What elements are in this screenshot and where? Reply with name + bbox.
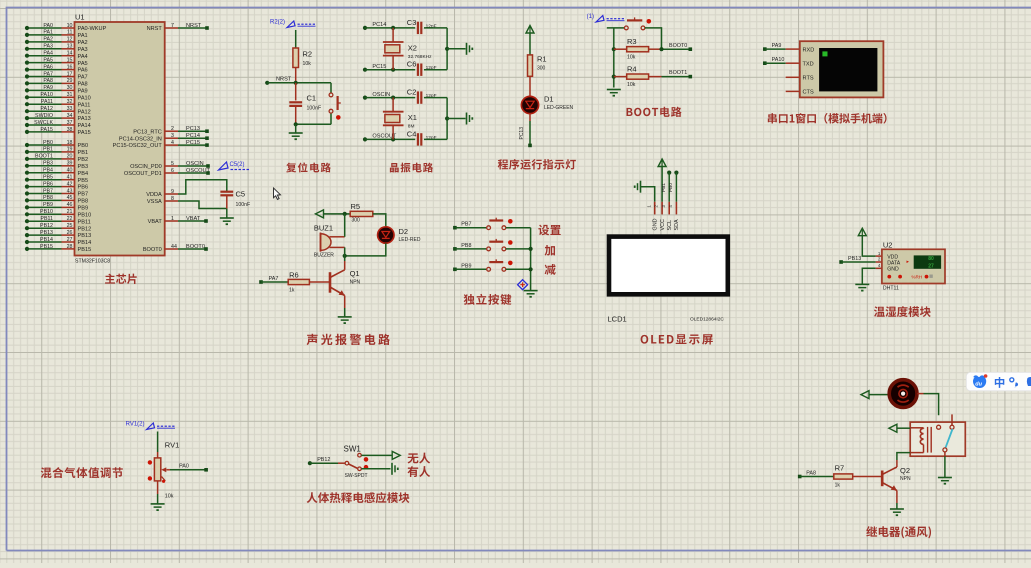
net label OSCIN <box>363 92 390 100</box>
svg-text:SDA: SDA <box>674 219 680 230</box>
power arrow OLED VCC <box>658 159 666 167</box>
svg-text:PA4: PA4 <box>43 51 53 57</box>
svg-text:BOOT1: BOOT1 <box>669 70 687 76</box>
label 串口1窗口（模拟手机端） <box>768 113 777 123</box>
wire PB7 to key <box>455 227 487 229</box>
svg-text:SCL: SCL <box>667 220 673 231</box>
svg-text:29: 29 <box>67 78 73 84</box>
U1 right pin 44 BOOT0 <box>143 244 208 253</box>
blue script label R2(2) <box>270 20 316 28</box>
resistor R6 1k <box>261 271 330 294</box>
svg-text:GND: GND <box>887 267 899 273</box>
wire net PB6 to U1 pin 42 <box>25 181 88 190</box>
wire power to R5 node <box>324 212 351 216</box>
svg-text:43: 43 <box>67 188 73 194</box>
svg-text:33: 33 <box>67 106 73 112</box>
power arrow buzzer <box>316 210 324 218</box>
label 程序运行指示灯 <box>498 159 508 169</box>
push button key PB9 <box>487 259 513 271</box>
svg-text:PB7: PB7 <box>78 192 89 198</box>
wire PB13 to DATA <box>841 261 876 263</box>
ground keys <box>524 291 538 297</box>
virtual terminal 串口1 window <box>786 41 884 97</box>
svg-text:PB11: PB11 <box>78 219 91 225</box>
capacitor C5 100nF <box>220 190 250 209</box>
relay RL1 body <box>910 422 965 456</box>
wire PB8 to key <box>455 248 487 250</box>
net label PA8 <box>798 470 816 478</box>
wire D1 to PC13 net <box>519 114 532 148</box>
wire net PB11 to U1 pin 22 <box>25 216 91 225</box>
led D2 LED-RED <box>378 227 421 243</box>
svg-text:PA3: PA3 <box>43 44 53 50</box>
net label PA9 <box>763 43 781 51</box>
svg-text:12: 12 <box>67 37 73 43</box>
svg-text:SWDIO: SWDIO <box>35 113 53 119</box>
wire net PA0 wiper <box>170 464 208 472</box>
power arrow relay coil <box>889 424 910 432</box>
svg-text:BOOT1: BOOT1 <box>35 154 53 160</box>
wire net PA5 to U1 pin 15 <box>25 57 88 66</box>
net label PB7 <box>453 222 471 230</box>
svg-text:OSCIN_PD0: OSCIN_PD0 <box>130 164 162 170</box>
push button key PB8 <box>487 239 513 251</box>
svg-text:PA11: PA11 <box>78 102 91 108</box>
net label PA7 <box>259 276 278 284</box>
wire D2 to collector node <box>343 243 386 258</box>
wire net PB15 to U1 pin 28 <box>25 244 91 253</box>
svg-text:1k: 1k <box>289 288 295 294</box>
wire C1 to button bottom <box>294 122 331 126</box>
svg-text:LED-RED: LED-RED <box>399 237 421 243</box>
input method toolbar <box>966 372 1031 390</box>
svg-text:32.768KHz: 32.768KHz <box>408 54 432 60</box>
svg-text:PA4: PA4 <box>78 54 88 60</box>
svg-text:BOOT0: BOOT0 <box>186 244 205 250</box>
svg-text:VCC: VCC <box>660 219 666 230</box>
svg-text:R2(2): R2(2) <box>270 20 285 26</box>
svg-text:PA7: PA7 <box>78 75 88 81</box>
label 主芯片 <box>105 274 115 284</box>
svg-text:PA8: PA8 <box>43 78 53 84</box>
wire button to BOOT0 net <box>645 28 662 49</box>
svg-text:PB0: PB0 <box>78 143 89 149</box>
svg-text:PC15-OSC32_OUT: PC15-OSC32_OUT <box>113 143 163 149</box>
svg-text:34: 34 <box>67 113 73 119</box>
label 独立按键 <box>464 294 475 305</box>
svg-text:PA7: PA7 <box>269 276 279 282</box>
svg-text:19: 19 <box>67 147 73 153</box>
svg-text:41: 41 <box>67 175 73 181</box>
resistor R7 1k <box>800 464 881 489</box>
label OLED显示屏 <box>641 335 649 344</box>
svg-text:R1: R1 <box>537 55 547 64</box>
blue script label C5(2) <box>219 162 250 170</box>
svg-text:NRST: NRST <box>186 23 202 29</box>
svg-text:PB14: PB14 <box>40 237 53 243</box>
wire VDD DHT11 <box>862 236 875 256</box>
ground BOOT circuit <box>607 90 621 96</box>
svg-text:PA2: PA2 <box>78 40 88 46</box>
svg-text:PA13: PA13 <box>78 116 91 122</box>
svg-text:PB7: PB7 <box>43 188 53 194</box>
net label PB12 <box>308 457 331 465</box>
wire OSCOUT row <box>365 137 415 141</box>
svg-text:R6: R6 <box>289 271 299 280</box>
svg-text:PB5: PB5 <box>78 178 89 184</box>
mouse cursor <box>274 188 281 199</box>
label 晶振电路 <box>390 163 399 172</box>
wire net PA15 to U1 pin 38 <box>25 127 91 136</box>
svg-text:C3: C3 <box>407 18 417 27</box>
svg-text:10k: 10k <box>303 61 312 67</box>
label 声光报警电路 <box>307 334 318 345</box>
wire left bus BOOT <box>612 28 616 88</box>
net label PA10 <box>763 57 784 65</box>
svg-text:VBAT: VBAT <box>186 216 201 222</box>
power arrow motor <box>861 391 869 399</box>
svg-text:SW1: SW1 <box>344 445 362 454</box>
svg-text:C6: C6 <box>407 60 417 69</box>
svg-text:PB9: PB9 <box>43 202 53 208</box>
wire PA10 to TXD <box>765 62 786 64</box>
svg-text:(1): (1) <box>587 14 594 20</box>
label 减 <box>545 264 556 275</box>
svg-text:X2: X2 <box>408 43 417 52</box>
svg-text:VDDA: VDDA <box>146 192 162 198</box>
ground below C5 <box>220 209 234 225</box>
potentiometer RV1 10k <box>148 441 180 500</box>
svg-text:PC14-OSC32_IN: PC14-OSC32_IN <box>119 136 162 142</box>
svg-text:OSCIN: OSCIN <box>186 161 204 167</box>
svg-text:BUZZER: BUZZER <box>314 253 334 259</box>
svg-text:17: 17 <box>67 71 73 77</box>
svg-text:PB13: PB13 <box>78 233 92 239</box>
svg-text:PA8: PA8 <box>78 82 88 88</box>
wire net PA1 to U1 pin 11 <box>25 30 88 39</box>
wire keys common bus <box>529 228 533 291</box>
svg-text:PA2: PA2 <box>43 37 53 43</box>
transistor Q1 NPN <box>330 261 361 308</box>
svg-text:10k: 10k <box>627 55 636 61</box>
wire right bus X1 <box>445 98 466 140</box>
svg-text:PA5: PA5 <box>43 57 53 63</box>
resistor R3 10k <box>614 37 662 61</box>
svg-text:PB10: PB10 <box>78 212 92 218</box>
wire key PB9 to bus <box>506 268 531 270</box>
wire net BOOT1 <box>662 70 693 78</box>
svg-text:PC13: PC13 <box>519 127 525 140</box>
svg-text:OLED12864I2C: OLED12864I2C <box>690 317 724 323</box>
svg-text:10: 10 <box>67 23 73 29</box>
svg-text:PB9: PB9 <box>461 263 471 269</box>
wire net SWCLK to U1 pin 37 <box>25 120 91 129</box>
wire R5 to D2 <box>373 214 386 227</box>
svg-text:11: 11 <box>67 30 73 36</box>
ground OLED GND <box>635 181 655 202</box>
svg-text:28: 28 <box>67 244 73 250</box>
svg-text:DATA: DATA <box>887 260 901 266</box>
svg-text:PB14: PB14 <box>78 240 92 246</box>
wire net SWDIO to U1 pin 34 <box>25 113 91 122</box>
svg-text:R2: R2 <box>303 50 313 59</box>
svg-text:SWCLK: SWCLK <box>34 120 53 126</box>
capacitor C6 12pF <box>407 60 447 76</box>
svg-text:GND: GND <box>653 218 659 230</box>
wire VSSA to C5 ground <box>178 201 227 209</box>
relay coil <box>910 427 931 453</box>
wire PC14 row <box>365 26 415 30</box>
svg-text:27: 27 <box>67 237 73 243</box>
resistor R4 10k <box>614 64 662 88</box>
svg-text:PC15: PC15 <box>186 140 200 146</box>
wire net PB12 to U1 pin 25 <box>25 223 91 232</box>
svg-text:PB10: PB10 <box>40 209 53 215</box>
net label NRST node <box>265 77 292 85</box>
wire GND DHT11 <box>862 268 875 284</box>
svg-text:DHT11: DHT11 <box>883 286 899 292</box>
svg-text:13: 13 <box>67 44 73 50</box>
svg-text:PB6: PB6 <box>78 185 89 191</box>
ground reset circuit <box>289 124 303 139</box>
label 加 <box>545 245 555 256</box>
power arrow DHT11 VDD <box>858 228 866 236</box>
U1 right pin 2 PC13_RTC <box>133 126 209 135</box>
ic U1 STM32F103C8 body <box>75 22 165 256</box>
svg-text:PB12: PB12 <box>317 457 330 463</box>
svg-text:PC13_RTC: PC13_RTC <box>133 129 162 135</box>
capacitor C2 12pF <box>407 88 447 104</box>
svg-text:NRST: NRST <box>276 77 292 83</box>
svg-text:PB4: PB4 <box>43 168 53 174</box>
buzzer BUZ1 <box>314 224 345 259</box>
wire net BOOT0 <box>659 43 692 52</box>
wire PB9 to key <box>455 268 487 270</box>
motor fan <box>889 380 917 408</box>
wire SW1 NC to ground <box>361 463 397 475</box>
svg-text:300: 300 <box>352 218 361 224</box>
wire PC15 row <box>365 68 415 72</box>
svg-text:NRST: NRST <box>147 26 163 32</box>
svg-text:42: 42 <box>67 181 73 187</box>
label 无人 <box>408 453 419 463</box>
svg-text:NPN: NPN <box>900 476 911 482</box>
svg-text:D2: D2 <box>399 227 409 236</box>
svg-text:Q2: Q2 <box>900 466 910 475</box>
wire PA9 to RXD <box>765 48 786 50</box>
wire power to R1 <box>529 33 531 55</box>
svg-text:20: 20 <box>67 154 73 160</box>
svg-text:PB0: PB0 <box>43 140 53 146</box>
svg-text:300: 300 <box>537 66 546 72</box>
svg-text:PB1: PB1 <box>43 147 53 153</box>
blue script label (1) <box>587 14 625 22</box>
transistor Q2 NPN <box>882 460 911 503</box>
svg-text:R7: R7 <box>835 464 845 473</box>
svg-text:PA10: PA10 <box>772 57 785 63</box>
wire net PA7 to U1 pin 17 <box>25 71 88 80</box>
wire VDDA to C5 <box>178 180 227 194</box>
svg-text:80: 80 <box>928 256 934 262</box>
svg-text:PA6: PA6 <box>78 68 88 74</box>
wire net PB4 to U1 pin 40 <box>25 168 88 177</box>
capacitor C1 100nF <box>289 83 321 125</box>
U1 right pin 1 VBAT <box>148 216 208 225</box>
relay contacts <box>937 414 954 456</box>
push button BOOT0 <box>624 17 651 29</box>
wire BOOT button left <box>607 27 625 29</box>
label 继电器(通风) <box>866 526 877 536</box>
svg-text:PA1: PA1 <box>43 30 53 36</box>
svg-text:PB12: PB12 <box>40 223 53 229</box>
svg-text:PB2: PB2 <box>78 157 89 163</box>
lcd LCD1 OLED display body <box>609 237 728 295</box>
U1 right pin 3 PC14-OSC32_IN <box>119 133 209 142</box>
svg-text:PA5: PA5 <box>78 61 88 67</box>
svg-text:PA11: PA11 <box>41 99 53 105</box>
lcd LCD1 pins <box>646 202 680 231</box>
wire power to R2 <box>295 30 297 48</box>
svg-text:Q1: Q1 <box>350 269 360 278</box>
wire net PB0 to SDA <box>668 171 678 202</box>
wire right bus X2 <box>445 28 466 70</box>
wire net PA0 to U1 pin 10 <box>25 23 107 32</box>
svg-text:32: 32 <box>67 99 73 105</box>
svg-text:U1: U1 <box>75 13 85 22</box>
svg-text:PA8: PA8 <box>806 470 816 476</box>
label 温湿度模块 <box>874 306 885 316</box>
wire net PB13 to U1 pin 26 <box>25 230 91 239</box>
svg-text:PB4: PB4 <box>78 171 89 177</box>
ground Q2 emitter <box>890 503 904 515</box>
wire net PB9 to U1 pin 46 <box>25 202 88 211</box>
label BOOT电路 <box>627 108 633 116</box>
svg-text:PA0-WKUP: PA0-WKUP <box>78 26 107 32</box>
svg-text:14: 14 <box>67 51 73 57</box>
wire net PB0 to U1 pin 18 <box>25 140 88 149</box>
svg-text:PA12: PA12 <box>78 109 91 115</box>
svg-text:R4: R4 <box>627 64 637 73</box>
svg-text:C2: C2 <box>407 88 417 97</box>
crystal X1 8M <box>383 98 417 140</box>
capacitor C4 12pF <box>407 129 447 145</box>
svg-text:PB12: PB12 <box>78 226 92 232</box>
svg-text:100nF: 100nF <box>236 202 251 208</box>
net label PB9 <box>453 263 471 271</box>
wire net PB1 to U1 pin 19 <box>25 147 88 156</box>
wire net PA11 to U1 pin 32 <box>25 99 90 108</box>
svg-text:PB8: PB8 <box>461 243 471 249</box>
svg-text:PB11: PB11 <box>40 216 53 222</box>
wire relay coil to Q2 collector <box>897 453 910 460</box>
net label PB13 <box>839 256 861 264</box>
svg-text:PA0: PA0 <box>43 23 53 29</box>
svg-text:PB1: PB1 <box>661 183 667 192</box>
wire net PB1 to SCL <box>661 171 671 202</box>
wire net BOOT1 to U1 pin 20 <box>25 154 88 163</box>
ground DHT11 <box>855 284 869 290</box>
wire net PA12 to U1 pin 33 <box>25 106 91 115</box>
label 混合气体值调节 <box>41 467 52 478</box>
svg-text:39: 39 <box>67 161 73 167</box>
wire R1 to D1 <box>529 76 531 96</box>
wire net PB10 to U1 pin 21 <box>25 209 91 218</box>
svg-text:PB5: PB5 <box>43 175 53 181</box>
wire power to motor <box>869 394 888 396</box>
blue script label RV1(2) <box>126 422 175 430</box>
svg-text:46: 46 <box>67 202 73 208</box>
svg-text:27: 27 <box>928 263 934 269</box>
svg-text:PB3: PB3 <box>78 164 89 170</box>
wire VCC pin OLED <box>661 167 663 202</box>
svg-text:U2: U2 <box>883 240 893 249</box>
svg-text:1k: 1k <box>835 483 841 489</box>
wire net PB7 to U1 pin 43 <box>25 188 88 197</box>
svg-text:38: 38 <box>67 127 73 133</box>
resistor R1 300 <box>528 55 547 77</box>
svg-text:PB8: PB8 <box>43 195 53 201</box>
svg-text:CTS: CTS <box>803 90 814 96</box>
wire net PB5 to U1 pin 41 <box>25 175 88 184</box>
ground X1 bus <box>467 113 473 125</box>
svg-text:PA14: PA14 <box>78 123 91 129</box>
svg-text:PA9: PA9 <box>78 89 88 95</box>
svg-text:PA7: PA7 <box>43 71 53 77</box>
svg-text:PC14: PC14 <box>186 133 200 139</box>
svg-text:PC13: PC13 <box>186 126 200 132</box>
ground Q1 emitter <box>338 308 352 323</box>
svg-text:RXD: RXD <box>803 47 815 53</box>
U1 right pin 6 OSCOUT_PD1 <box>124 168 211 177</box>
svg-text:10k: 10k <box>627 82 636 88</box>
svg-text:%RH: %RH <box>911 275 922 280</box>
svg-text:16: 16 <box>67 64 73 70</box>
wire net PA6 to U1 pin 16 <box>25 64 88 73</box>
svg-text:BOOT0: BOOT0 <box>143 247 162 253</box>
svg-text:PA12: PA12 <box>40 106 53 112</box>
svg-text:30: 30 <box>67 85 73 91</box>
svg-text:PB15: PB15 <box>78 247 92 253</box>
resistor R5 300 <box>350 202 373 224</box>
push button reset <box>329 83 341 125</box>
label 人体热释电感应模块 <box>307 492 318 503</box>
resistor R2 10k <box>293 48 312 83</box>
svg-text:45: 45 <box>67 195 73 201</box>
svg-text:PB8: PB8 <box>78 199 89 205</box>
wire net PA2 to U1 pin 12 <box>25 37 88 46</box>
wire buzzer bus <box>344 214 346 261</box>
svg-text:RV1(2): RV1(2) <box>126 422 145 428</box>
net label OSCOUT <box>363 134 397 142</box>
wire top RV1 <box>157 432 159 458</box>
svg-text:TXD: TXD <box>803 61 814 67</box>
ground RV1 <box>151 494 165 510</box>
wire relay NO to ground <box>944 456 946 477</box>
svg-text:C4: C4 <box>407 129 417 138</box>
svg-text:R3: R3 <box>627 37 637 46</box>
svg-text:LCD1: LCD1 <box>608 315 627 324</box>
svg-text:STM32F103C8: STM32F103C8 <box>75 259 110 265</box>
U1 right pin 9 VDDA <box>146 189 178 198</box>
svg-text:PB9: PB9 <box>78 206 89 212</box>
svg-text:PB7: PB7 <box>461 222 471 228</box>
svg-text:PA0: PA0 <box>179 464 189 470</box>
wire net PB8 to U1 pin 45 <box>25 195 88 204</box>
svg-text:SW-SPDT: SW-SPDT <box>345 473 368 479</box>
svg-text:PB3: PB3 <box>43 161 53 167</box>
svg-text:X1: X1 <box>408 113 417 122</box>
label 有人 <box>407 466 418 477</box>
